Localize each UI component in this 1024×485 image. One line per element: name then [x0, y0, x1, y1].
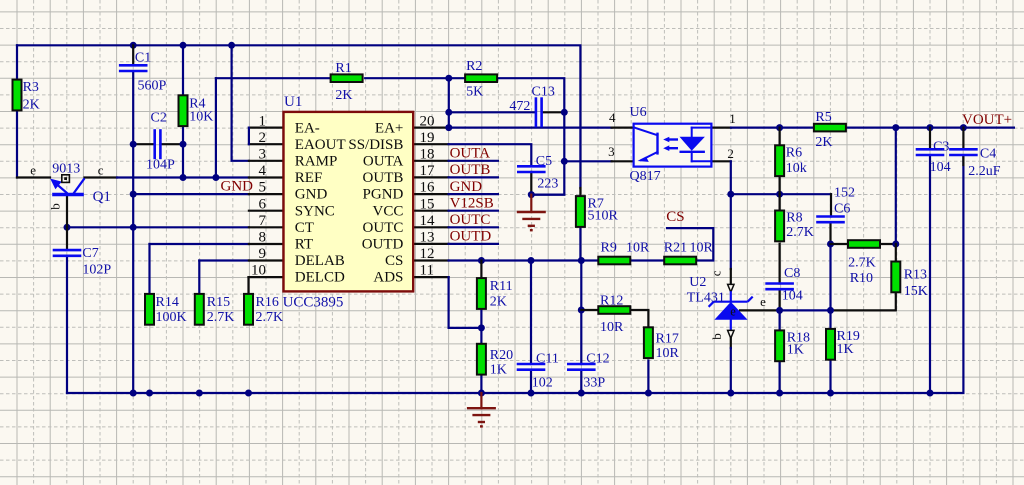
junction ground bus at R18: [776, 390, 783, 397]
wire top bus from R3 to R7 column: [17, 45, 580, 188]
svg-text:b: b: [709, 333, 724, 340]
svg-text:18: 18: [420, 147, 435, 163]
svg-text:2.2uF: 2.2uF: [968, 164, 1001, 179]
wire OUTB stub pin17: [413, 176, 448, 178]
regulator U2 TL431: [687, 270, 766, 340]
wire C12 column: [580, 261, 582, 365]
wire R17 bottom lead: [647, 361, 649, 393]
junction R2 left at C13 riser: [445, 75, 452, 82]
svg-text:1K: 1K: [837, 342, 854, 357]
svg-text:1: 1: [259, 113, 267, 129]
wire TL431 ref to divider: [740, 309, 780, 311]
resistor R13: [891, 262, 928, 299]
resistor R11: [477, 278, 513, 309]
junction top bus at R4: [180, 42, 187, 49]
svg-text:13: 13: [420, 230, 435, 246]
junction ground bus at R17: [645, 390, 652, 397]
svg-text:e: e: [760, 294, 766, 309]
svg-text:7: 7: [259, 213, 267, 229]
wire R7 bottom to CS net: [579, 226, 581, 261]
junction opto pin3 net at C13 riser: [561, 158, 568, 165]
capacitor C6: [816, 186, 855, 223]
svg-text:R6: R6: [786, 145, 802, 160]
svg-text:R15: R15: [207, 295, 230, 310]
wire C6 bottom to R10 node: [829, 222, 831, 244]
wire R10 right lead: [878, 243, 895, 245]
wire C13 right riser down to opto pin3 net and C5: [531, 112, 564, 194]
svg-text:9: 9: [259, 246, 267, 262]
svg-text:R9: R9: [601, 240, 617, 255]
capacitor C3: [916, 140, 951, 175]
svg-text:6: 6: [259, 196, 267, 212]
junction ground bus at R19: [827, 390, 834, 397]
svg-text:3: 3: [608, 144, 615, 159]
svg-text:OUTC: OUTC: [450, 212, 491, 228]
wire pin1 pin2 bracket EA- EAOUT: [249, 126, 284, 128]
resistor R20: [477, 344, 513, 378]
svg-text:C12: C12: [586, 351, 609, 366]
svg-text:15: 15: [420, 196, 435, 212]
junction C13 left: [445, 109, 452, 116]
junction ground bus at R14: [146, 390, 153, 397]
svg-text:8: 8: [259, 230, 267, 246]
svg-text:R5: R5: [815, 110, 831, 125]
capacitor C12: [567, 351, 610, 390]
svg-text:R8: R8: [786, 211, 802, 226]
wire riser R1 left to pin4 net: [215, 78, 217, 177]
svg-text:100K: 100K: [156, 310, 187, 325]
wire R12 right to R17 top: [631, 310, 649, 327]
junction R10 right at R13: [892, 241, 899, 248]
junction CS net at R7/C12: [578, 257, 585, 264]
junction R11-R20 node: [478, 324, 485, 331]
resistor R3: [13, 80, 40, 113]
svg-text:GND: GND: [450, 179, 483, 195]
wire R8 leads: [778, 194, 780, 210]
svg-text:GND: GND: [221, 179, 254, 195]
resistor R1: [331, 61, 363, 103]
svg-text:16: 16: [420, 180, 436, 196]
svg-text:R20: R20: [490, 348, 513, 363]
op-amp U1 UCC3895 body: [283, 94, 414, 311]
resistor R9: [598, 240, 650, 264]
svg-text:ADS: ADS: [373, 270, 403, 286]
svg-text:c: c: [709, 270, 724, 276]
svg-text:14: 14: [420, 213, 436, 229]
wire opto pin2 down to TL431 cathode: [711, 160, 730, 162]
svg-text:GND: GND: [295, 187, 328, 203]
junction ground bus at C11: [528, 390, 535, 397]
wire C11 column: [530, 261, 532, 365]
svg-text:b: b: [48, 203, 63, 210]
junction ground bus at C3: [927, 390, 934, 397]
svg-text:VCC: VCC: [373, 203, 404, 219]
junction VOUT rail at C3: [927, 124, 934, 131]
svg-text:10R: 10R: [626, 240, 650, 255]
svg-text:U1: U1: [284, 94, 302, 110]
wire C8 bottom lead: [778, 289, 780, 310]
wire ground bus along bottom: [67, 155, 963, 393]
junction opto pin2 riser at divider wire: [727, 191, 734, 198]
svg-text:C7: C7: [82, 246, 98, 261]
wire C4 leads: [962, 128, 964, 150]
svg-text:C2: C2: [151, 111, 167, 126]
junction ground bus at C1 column: [130, 390, 137, 397]
wire C5 bottom lead and link to C13 riser: [530, 172, 532, 195]
resistor R10: [848, 240, 880, 286]
wire pin8 RT net to R14: [150, 243, 249, 245]
svg-text:2.7K: 2.7K: [786, 225, 814, 240]
svg-text:EAOUT: EAOUT: [295, 137, 346, 153]
svg-text:472: 472: [509, 99, 530, 114]
svg-text:102P: 102P: [82, 262, 111, 277]
opto-coupler U6 Q817: [630, 105, 712, 184]
junction pin4 net at R1 riser: [212, 174, 219, 181]
svg-text:104: 104: [930, 160, 951, 175]
svg-text:10R: 10R: [600, 320, 624, 335]
resistor R21: [664, 240, 714, 264]
svg-text:10: 10: [251, 263, 266, 279]
svg-text:OUTA: OUTA: [450, 146, 491, 162]
wire pin9 DELAB net to R15: [199, 259, 249, 261]
wire OUTA stub pin18: [413, 160, 448, 162]
resistor R5: [814, 110, 846, 150]
capacitor C11: [517, 351, 559, 390]
svg-text:C4: C4: [980, 146, 996, 161]
svg-text:C3: C3: [933, 140, 949, 155]
resistor R18: [775, 330, 810, 361]
svg-text:e: e: [30, 163, 36, 178]
transistor Q1 9013: [30, 162, 111, 210]
svg-text:19: 19: [420, 130, 435, 146]
svg-text:U6: U6: [630, 105, 647, 120]
capacitor C7: [53, 246, 112, 278]
resistor R4: [179, 95, 214, 126]
svg-text:CS: CS: [666, 209, 684, 225]
wire R20 leads: [480, 328, 482, 343]
svg-text:15K: 15K: [904, 284, 928, 299]
wire pin6 stub: [249, 210, 284, 212]
svg-text:e: e: [730, 304, 736, 318]
svg-text:C13: C13: [532, 85, 555, 100]
resistor R8: [775, 211, 814, 242]
junction CT net at C1 column: [130, 224, 137, 231]
wire OUTC stub pin14: [413, 226, 448, 228]
wire opto pin3 net: [564, 160, 611, 162]
svg-text:R2: R2: [466, 59, 482, 74]
resistor R16: [244, 294, 283, 325]
wire C3 leads: [929, 128, 931, 150]
svg-text:10R: 10R: [690, 240, 714, 255]
wire divider node R6-R8 to C6: [731, 193, 831, 195]
svg-text:4: 4: [259, 163, 267, 179]
wire GND stub pin16: [413, 193, 448, 195]
junction pin20 net: [445, 124, 452, 131]
resistor R14: [145, 294, 187, 325]
svg-text:OUTB: OUTB: [450, 162, 491, 178]
svg-text:R12: R12: [600, 294, 623, 309]
svg-text:3: 3: [259, 147, 267, 163]
svg-text:2.7K: 2.7K: [848, 255, 876, 270]
wire R12 left lead: [581, 309, 598, 311]
svg-text:c: c: [98, 163, 104, 178]
wire R11 leads: [480, 261, 482, 278]
svg-text:UCC3895: UCC3895: [283, 295, 344, 311]
wire opto pin1 to VOUT+ rail: [711, 126, 731, 128]
svg-text:2.7K: 2.7K: [207, 310, 235, 325]
wire C1 top lead: [132, 45, 134, 65]
svg-text:2: 2: [727, 146, 734, 161]
junction C2 right at R4: [180, 141, 187, 148]
resistor R2: [465, 59, 497, 99]
junction VOUT rail at R13 riser: [892, 124, 899, 131]
capacitor C8: [765, 266, 802, 303]
svg-text:152: 152: [834, 186, 855, 201]
capacitor C1: [119, 50, 167, 93]
wire TL431 anode to ground bus: [730, 339, 732, 349]
wire R10 left lead: [831, 243, 848, 245]
wire C7 bottom to ground bus: [66, 256, 68, 393]
svg-text:R10: R10: [850, 271, 873, 286]
junction VOUT rail at R6: [776, 124, 783, 131]
junction top bus at C1: [130, 42, 137, 49]
svg-text:EA+: EA+: [375, 120, 403, 136]
wire C6 top lead: [830, 194, 832, 216]
wire C6-R19 column through ref node: [829, 244, 831, 328]
svg-text:C8: C8: [784, 266, 800, 281]
svg-text:2K: 2K: [335, 88, 352, 103]
resistor R7: [576, 196, 619, 227]
svg-text:2: 2: [259, 130, 267, 146]
wire C13 left lead: [449, 111, 536, 113]
svg-text:DELAB: DELAB: [295, 253, 345, 269]
resistor R19: [826, 329, 860, 360]
junction ground bus at R15: [196, 390, 203, 397]
svg-text:OUTA: OUTA: [363, 154, 404, 170]
junction C13 right: [561, 109, 568, 116]
svg-text:OUTC: OUTC: [363, 220, 404, 236]
junction pin4 net at R4 column: [180, 174, 187, 181]
svg-text:17: 17: [420, 163, 436, 179]
svg-text:102: 102: [532, 375, 553, 390]
svg-text:R1: R1: [335, 61, 351, 76]
svg-text:1K: 1K: [490, 363, 507, 378]
svg-text:C1: C1: [135, 50, 151, 65]
svg-text:REF: REF: [295, 170, 323, 186]
svg-text:560P: 560P: [138, 78, 167, 93]
svg-text:OUTD: OUTD: [362, 237, 404, 253]
svg-text:1K: 1K: [787, 342, 804, 357]
junction R10 left node: [827, 241, 834, 248]
wire pin11 to R11-R20 node: [413, 276, 448, 278]
resistor R6: [775, 145, 807, 176]
svg-text:CS: CS: [385, 253, 403, 269]
junction top bus at RAMP riser: [228, 42, 235, 49]
svg-text:C5: C5: [536, 154, 552, 169]
wire R1 R2 net: [216, 77, 330, 79]
junction ground bus at TL431: [727, 390, 734, 397]
junction C2 left: [130, 141, 137, 148]
resistor R12: [598, 294, 630, 335]
svg-text:RAMP: RAMP: [295, 154, 338, 170]
svg-text:R13: R13: [904, 268, 927, 283]
svg-text:C11: C11: [536, 351, 559, 366]
wire C1 bottom to C2 node: [132, 71, 134, 144]
resistor R15: [195, 294, 235, 325]
wire C13 right lead: [542, 111, 565, 113]
svg-text:SYNC: SYNC: [295, 203, 335, 219]
svg-text:DELCD: DELCD: [295, 270, 345, 286]
svg-text:C6: C6: [834, 202, 850, 217]
wire pin20 to opto pin4: [413, 126, 449, 128]
junction ground bus at R20: [478, 390, 485, 397]
wire pin10 DELCD net to R16: [249, 276, 284, 278]
svg-text:R16: R16: [256, 295, 279, 310]
svg-text:2.7K: 2.7K: [256, 310, 284, 325]
wire C2 right lead: [160, 143, 183, 145]
junction ground bus at C12: [578, 390, 585, 397]
svg-text:R11: R11: [490, 279, 513, 294]
wire Q1 base lead: [66, 195, 68, 228]
svg-text:10k: 10k: [786, 161, 807, 176]
svg-text:2K: 2K: [490, 295, 507, 310]
wire VOUT rail down to R13: [895, 128, 897, 244]
svg-text:TL431: TL431: [687, 290, 725, 305]
svg-text:Q817: Q817: [630, 169, 661, 184]
wire pin12 CS net: [413, 259, 448, 261]
junction VOUT rail at C4: [960, 124, 967, 131]
svg-text:510R: 510R: [588, 209, 619, 224]
svg-text:R3: R3: [23, 80, 39, 95]
resistor R17: [644, 327, 680, 361]
svg-text:EA-: EA-: [295, 120, 320, 136]
junction C5 bottom: [528, 191, 535, 198]
junction GND wire start: [130, 191, 137, 198]
node GND wire pin5: [133, 193, 249, 195]
svg-text:2K: 2K: [815, 135, 832, 150]
capacitor C4: [949, 146, 1001, 179]
svg-text:U2: U2: [689, 275, 706, 290]
svg-text:5K: 5K: [466, 85, 483, 100]
wire R6 leads: [778, 128, 780, 145]
capacitor C13: [509, 85, 554, 128]
wire R3 column: [16, 45, 18, 79]
wire C2 left lead: [133, 143, 155, 145]
junction R12 left at C12 column: [578, 307, 585, 314]
svg-text:SS/DISB: SS/DISB: [348, 137, 403, 153]
junction CT net at Q1 base: [64, 224, 71, 231]
svg-text:10K: 10K: [189, 110, 213, 125]
svg-text:OUTD: OUTD: [450, 229, 492, 245]
wire R4 top lead: [182, 45, 184, 95]
svg-text:104P: 104P: [146, 158, 175, 173]
wire pin7 CT net from Q1 base: [67, 226, 249, 228]
svg-text:RT: RT: [295, 237, 313, 253]
svg-text:20: 20: [420, 113, 435, 129]
svg-text:1: 1: [729, 111, 736, 126]
junction divider at R6/R8: [776, 191, 783, 198]
svg-text:R21: R21: [664, 240, 687, 255]
svg-text:4: 4: [609, 110, 616, 125]
junction CS net at R11: [478, 257, 485, 264]
junction ground bus at R16: [245, 390, 252, 397]
capacitor C2: [146, 111, 175, 173]
svg-text:Q1: Q1: [93, 189, 111, 205]
svg-text:223: 223: [537, 177, 558, 192]
svg-text:12: 12: [420, 246, 435, 262]
wire C1-C2 column down to ground bus: [132, 144, 134, 393]
wire riser R2-C13-pin20: [448, 78, 450, 127]
wire pin4 REF net from Q1 collector: [85, 176, 118, 178]
svg-text:R14: R14: [156, 295, 179, 310]
ground at R20: [467, 393, 496, 426]
svg-text:2K: 2K: [23, 98, 40, 113]
junction ref node at C8/R18: [776, 307, 783, 314]
wire R4 bottom to pin4 net: [182, 127, 184, 178]
junction CS net at C11: [528, 257, 535, 264]
wire Q1 emitter to R3 column: [17, 176, 50, 178]
wire C7 top lead: [66, 227, 68, 250]
wire riser top bus to RAMP pin3: [232, 45, 249, 161]
ground at C5: [517, 195, 546, 231]
wire pin3 stub: [249, 160, 284, 162]
svg-text:33P: 33P: [583, 375, 605, 390]
wire pin19 to C5 top: [413, 143, 448, 145]
svg-text:R17: R17: [656, 332, 679, 347]
capacitor C5: [517, 154, 558, 191]
svg-text:PGND: PGND: [363, 187, 404, 203]
svg-text:V12SB: V12SB: [450, 196, 494, 212]
wire OUTD stub pin13: [413, 243, 448, 245]
wire R13 bottom bent lead to ref node: [831, 293, 896, 310]
svg-text:5: 5: [259, 180, 267, 196]
svg-text:CT: CT: [295, 220, 314, 236]
svg-text:10R: 10R: [656, 346, 680, 361]
svg-text:VOUT+: VOUT+: [962, 112, 1012, 128]
svg-text:104: 104: [782, 289, 803, 304]
junction ref node at R19 column: [827, 307, 834, 314]
wire R18 leads: [778, 310, 780, 330]
svg-text:OUTB: OUTB: [363, 170, 404, 186]
wire V12SB stub pin15: [413, 210, 448, 212]
svg-text:11: 11: [420, 263, 434, 279]
